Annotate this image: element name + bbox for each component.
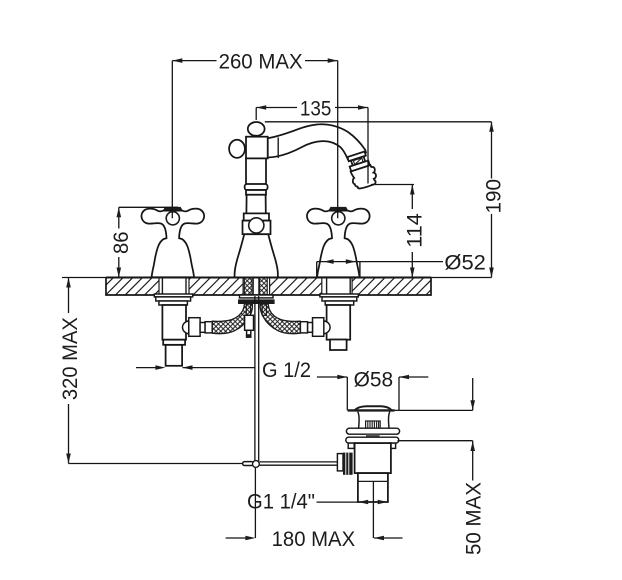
svg-text:190: 190 bbox=[483, 179, 506, 214]
svg-text:50 MAX: 50 MAX bbox=[462, 482, 485, 555]
svg-text:320 MAX: 320 MAX bbox=[59, 317, 82, 400]
svg-text:260 MAX: 260 MAX bbox=[219, 51, 303, 74]
svg-text:135: 135 bbox=[300, 98, 332, 121]
svg-text:114: 114 bbox=[403, 213, 426, 248]
svg-text:Ø58: Ø58 bbox=[354, 368, 394, 391]
svg-text:G 1/2: G 1/2 bbox=[262, 359, 311, 382]
svg-text:Ø52: Ø52 bbox=[444, 252, 486, 275]
svg-text:86: 86 bbox=[110, 231, 133, 254]
svg-text:180 MAX: 180 MAX bbox=[272, 528, 356, 551]
svg-text:G1 1/4": G1 1/4" bbox=[247, 491, 315, 514]
